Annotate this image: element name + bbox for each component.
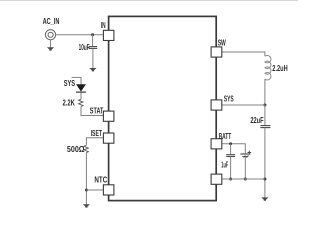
pin SW box <box>211 47 222 57</box>
ground (right rail) <box>261 197 268 200</box>
wire BATT pin to battery BT1 <box>222 144 246 154</box>
battery BT1 top plate <box>240 153 250 155</box>
ground (J1) <box>47 47 54 50</box>
ground (C1) <box>89 68 96 71</box>
wire junction to C3 <box>230 144 232 155</box>
pin IN box <box>103 30 114 40</box>
svg-text:STAT: STAT <box>90 106 104 115</box>
capacitor C3 plates <box>226 155 235 157</box>
LED D1 cathode bar <box>76 91 86 93</box>
wire C1 to ground <box>92 48 94 68</box>
connector J1 AC_IN <box>45 30 55 40</box>
pin SYS box <box>211 100 222 110</box>
wire J1 to IN pin <box>55 34 103 36</box>
junction bottom rail / right rail <box>263 178 266 181</box>
svg-text:22uF: 22uF <box>250 116 263 125</box>
capacitor C2 plates <box>260 126 270 128</box>
battery BT1 plus sign <box>248 151 252 155</box>
pin BATT box <box>211 139 222 149</box>
svg-text:SYS: SYS <box>64 79 76 88</box>
svg-text:1uF: 1uF <box>221 161 228 170</box>
wire SYS label to LED D1 <box>72 77 81 84</box>
pin NTC box <box>103 185 114 195</box>
wire BT1 to bottom rail <box>244 157 246 179</box>
wire J1 to ground <box>50 40 52 48</box>
wire ISET pin to R2 <box>86 138 103 146</box>
wire C3 to bottom rail <box>230 157 232 180</box>
svg-text:AC_IN: AC_IN <box>43 17 60 26</box>
svg-text:2.2uH: 2.2uH <box>272 64 288 73</box>
junction C3 bottom <box>229 178 232 181</box>
junction BATT/C3 <box>229 142 232 145</box>
wire C2 to ground <box>264 128 266 198</box>
svg-text:SW: SW <box>218 39 226 48</box>
pin STAT box <box>103 111 114 121</box>
IC U1 body <box>109 16 217 200</box>
resistor R2 zigzag <box>84 145 88 152</box>
svg-text:10uF: 10uF <box>79 43 90 52</box>
svg-text:NTC: NTC <box>94 175 107 184</box>
ground (NTC) <box>83 204 90 207</box>
svg-text:2.2K: 2.2K <box>63 98 76 107</box>
junction R2/NTC <box>85 189 88 192</box>
wire SW pin to L1 <box>222 52 265 56</box>
junction BT1 bottom <box>244 178 247 181</box>
wire L1 to SYS junction <box>264 79 266 105</box>
wire R2 down to NTC rail <box>85 153 87 205</box>
pin GND box <box>211 174 222 184</box>
wire SYS rail down to C2 <box>264 105 266 125</box>
svg-text:IN: IN <box>101 21 106 30</box>
LED D1 triangle <box>76 84 86 91</box>
svg-text:BATT: BATT <box>219 132 232 141</box>
inductor L1 coil <box>265 55 271 80</box>
junction C1 tap <box>91 33 94 36</box>
wire junction to C1 <box>92 35 94 47</box>
wire bottom pin rail <box>222 178 265 180</box>
resistor R1 zigzag <box>79 99 83 106</box>
svg-text:500Ω: 500Ω <box>67 145 85 154</box>
battery BT1 bottom plate <box>242 155 248 157</box>
pin ISET box <box>103 133 114 143</box>
svg-text:ISET: ISET <box>91 129 102 138</box>
wire NTC pin to junction <box>86 189 103 191</box>
svg-text:SYS: SYS <box>224 94 234 103</box>
wire D1 to R1 <box>80 93 82 100</box>
capacitor C1 plates <box>89 47 98 49</box>
wire SYS pin to junction <box>222 104 265 106</box>
junction SYS/L1 <box>263 104 266 107</box>
wire R1 to STAT pin <box>81 107 103 116</box>
